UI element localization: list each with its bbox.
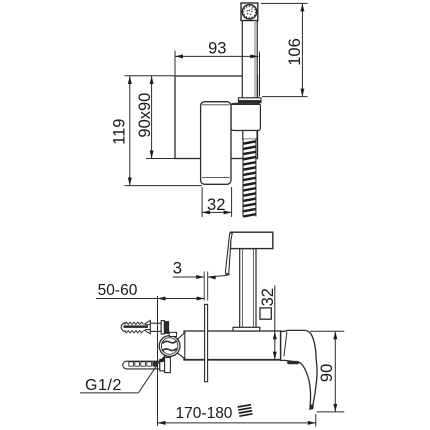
side view: shower shaft [240,249,256,328]
side view: upper connection bracket and nut [161,321,168,334]
svg-text:170-180: 170-180 [176,405,233,422]
dimension 90 (lever height) [310,331,344,412]
side view: lower wall connection threaded pipe G1/2 [123,361,160,369]
side view: wall finished-surface plate (3mm) [205,304,208,381]
top view: square wall plate 90x90 [175,76,258,159]
label G1/2 with leader line [80,354,166,394]
wall finish hatch symbol [238,405,253,417]
svg-text:119: 119 [111,119,129,145]
side view: neck between valve and body [178,333,185,359]
side view: top tab on valve housing [169,332,176,336]
top view: hand shower head with spray face [241,3,258,21]
vertical reference line (wall surface) [157,296,159,426]
side view: valve cartridge housing (circle with mixer symbols) [159,336,180,357]
label square-32 (body cross-section) with dimension line [259,286,277,360]
dimension 170-180 (wall to lever tip) [158,405,316,426]
svg-text:3: 3 [173,260,182,278]
top view: shower shaft [242,21,257,99]
side view: shower holder flange on body [233,327,260,331]
top view: mixer lever handle (pointing down) [201,102,231,185]
svg-text:G1/2: G1/2 [85,377,122,394]
side view: shower head [231,232,273,248]
side view: spray trigger lever [225,233,232,275]
side view: upper wall plug with thread [121,320,161,333]
dimension 90x90 (plate size) [136,76,175,159]
dimension 93 (plate edge to holder) [175,39,260,96]
top view: flexible shower hose (coil) [243,139,256,216]
svg-text:50-60: 50-60 [98,282,138,299]
dimension 106 (head top to holder) [261,3,308,96]
top view: shower holder block [231,103,260,130]
svg-text:32: 32 [259,288,277,306]
dimension 32 (handle width, top view) [202,187,232,217]
svg-text:32: 32 [207,196,225,214]
dimension 50-60 (wall to plate) [96,282,205,300]
side view: lower connection nut [160,357,171,372]
svg-text:93: 93 [208,39,226,57]
top view: shower holder flange [238,98,261,103]
side view: mixer body tube [184,331,281,360]
dimension 119 (plate top to handle bottom) [111,76,202,186]
top view: hose connector nut [243,131,257,140]
side view: mixer lever handle [281,330,317,409]
svg-text:90x90: 90x90 [136,93,154,138]
svg-text:90: 90 [318,364,336,382]
svg-text:106: 106 [286,38,304,66]
dimension 3 (plate thickness) [173,260,228,301]
